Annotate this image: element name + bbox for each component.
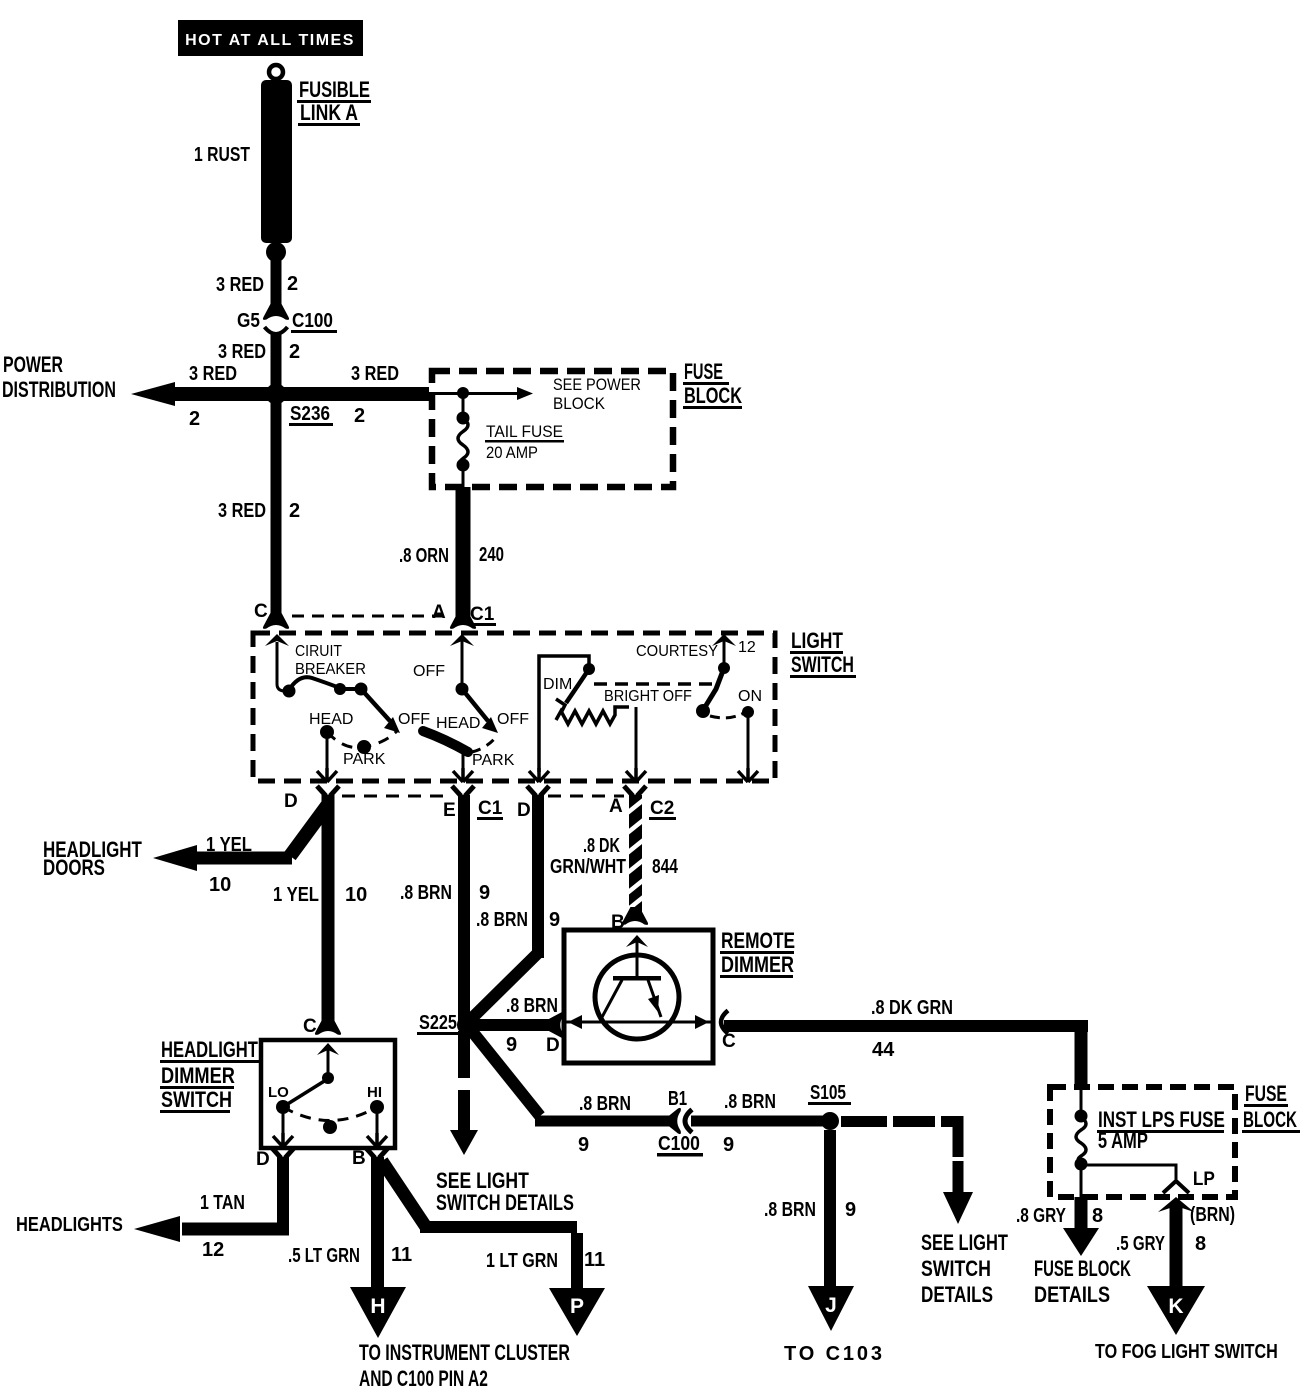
connector P arrow: [549, 1288, 605, 1336]
svg-text:PARK: PARK: [343, 751, 386, 768]
svg-text:9: 9: [578, 1134, 589, 1156]
svg-text:2: 2: [189, 408, 200, 430]
node: HOT AT ALL TIMES power label: [178, 20, 363, 56]
fuse block (upper) dashed enclosure: [432, 371, 673, 487]
svg-text:P: P: [570, 1295, 584, 1318]
splice S236 junction dot: [266, 384, 287, 405]
svg-text:1 LT GRN: 1 LT GRN: [486, 1249, 558, 1271]
svg-text:44: 44: [872, 1039, 895, 1061]
tail fuse element (fusible element squiggle): [457, 412, 470, 425]
svg-text:240: 240: [479, 543, 504, 566]
svg-text:3 RED: 3 RED: [216, 272, 264, 295]
label CIRUIT BREAKER: [295, 642, 366, 678]
label SEE LIGHT SWITCH DETAILS (right): [921, 1231, 1008, 1308]
ganged-switch mechanical link (dashed): [594, 682, 712, 686]
fuse block (lower) dashed enclosure: [1050, 1087, 1235, 1197]
wire: LO contact to pin D: [282, 1107, 285, 1134]
dimmer switch pin C male arrow: [317, 1043, 339, 1055]
dimmer switch wiper: [327, 1050, 330, 1074]
wire: power distribution feed (left arrow): [166, 387, 276, 401]
switch blade: pin A to OFF position: [462, 689, 488, 721]
svg-text:LP: LP: [1193, 1168, 1215, 1189]
svg-text:HI: HI: [367, 1084, 382, 1101]
wire: S225 down to SEE LIGHT SWITCH DETAILS (dashed break): [458, 1031, 470, 1078]
dimmer wiper blade: [566, 672, 587, 703]
label HEADLIGHT DIMMER SWITCH: [160, 1038, 259, 1113]
wire 11: dimmer switch B to instrument cluster (.5 LT GRN): [371, 1157, 384, 1287]
connector J arrow to C103: [808, 1286, 854, 1331]
label HEADLIGHT DOORS: [43, 838, 142, 881]
svg-text:DISTRIBUTION: DISTRIBUTION: [2, 379, 116, 403]
label REMOTE DIMMER: [720, 929, 795, 978]
svg-text:OFF: OFF: [398, 711, 430, 728]
wire: HEAD crescent to pin E: [462, 752, 465, 772]
svg-text:844: 844: [652, 855, 678, 877]
svg-text:11: 11: [584, 1249, 605, 1271]
svg-text:SWITCH: SWITCH: [791, 654, 854, 678]
svg-text:HEAD: HEAD: [436, 715, 480, 732]
label POWER DISTRIBUTION: [2, 354, 116, 403]
svg-text:HEADLIGHT: HEADLIGHT: [161, 1038, 258, 1063]
svg-text:9: 9: [723, 1134, 734, 1156]
svg-text:SEE POWER: SEE POWER: [553, 376, 641, 394]
courtesy switch blade: [705, 668, 724, 707]
wire: S105 dashed branch to SEE LIGHT SWITCH DETAILS (right): [841, 1116, 887, 1127]
wire 9: light switch E down to S225 (.8 BRN): [458, 795, 470, 1025]
svg-text:2: 2: [289, 500, 300, 522]
svg-text:TO C103: TO C103: [784, 1343, 882, 1365]
svg-text:5 AMP: 5 AMP: [1098, 1129, 1148, 1154]
svg-text:B1: B1: [668, 1087, 687, 1110]
label FUSIBLE LINK A: [297, 78, 371, 126]
transistor Q1 (remote dimmer): [566, 942, 711, 1039]
svg-text:C2: C2: [650, 798, 674, 819]
wire 8: fuse block down to fuse block details (.8 GRY): [1075, 1197, 1088, 1229]
svg-text:1 TAN: 1 TAN: [200, 1191, 245, 1213]
wire 10: light switch D down to dimmer switch (1 YEL): [322, 795, 335, 1022]
svg-text:FUSE BLOCK: FUSE BLOCK: [1034, 1256, 1131, 1281]
pin C: terminal chevron (top): [263, 611, 289, 629]
wire 9: light switch D down to S225 (.8 BRN): [532, 795, 544, 958]
svg-text:3 RED: 3 RED: [351, 361, 399, 384]
svg-text:DETAILS: DETAILS: [921, 1283, 993, 1308]
contact HI: [370, 1100, 384, 1114]
connector C100 (B1) inline chevrons: [668, 1108, 692, 1134]
svg-text:1 RUST: 1 RUST: [194, 143, 250, 165]
remote dimmer pin B male arrow: [626, 935, 648, 947]
svg-text:DETAILS: DETAILS: [1034, 1283, 1110, 1307]
junction dot below fusible link: [266, 242, 286, 262]
svg-text:12: 12: [202, 1239, 224, 1261]
svg-text:10: 10: [209, 874, 231, 896]
pin LP terminal chevron: [1163, 1181, 1189, 1193]
svg-text:8: 8: [1092, 1205, 1103, 1227]
svg-text:.8 DK GRN: .8 DK GRN: [871, 996, 953, 1018]
svg-text:HEADLIGHTS: HEADLIGHTS: [16, 1212, 123, 1235]
svg-text:PARK: PARK: [472, 752, 515, 769]
remote dimmer U1 module box: [564, 930, 713, 1063]
wire: S236 to fuse block: [276, 387, 429, 401]
headlight dimmer switch box: [261, 1040, 395, 1148]
pin C terminal chevron at headlight dimmer switch: [315, 1017, 341, 1035]
wire: C100 to S236: [271, 334, 282, 394]
svg-text:3 RED: 3 RED: [218, 498, 266, 521]
wire 9: S105 down to C103 (.8 BRN): [824, 1130, 836, 1287]
svg-text:LO: LO: [268, 1084, 289, 1101]
svg-text:9: 9: [506, 1034, 517, 1056]
svg-text:S105: S105: [810, 1081, 846, 1103]
svg-text:GRN/WHT: GRN/WHT: [550, 855, 626, 877]
svg-text:HOT AT ALL TIMES: HOT AT ALL TIMES: [185, 32, 355, 49]
svg-text:C1: C1: [478, 798, 503, 819]
svg-text:D: D: [256, 1149, 270, 1170]
svg-text:.8 BRN: .8 BRN: [476, 908, 528, 930]
wire: HI contact to pin B: [376, 1107, 379, 1134]
contact HEAD (thick blade crescent): [423, 731, 468, 752]
wire 9: S225 diagonal to C100 (.8 BRN): [467, 1025, 540, 1116]
wire: pin A to headlight feed blade: [461, 641, 464, 684]
svg-text:(BRN): (BRN): [1190, 1203, 1235, 1225]
svg-text:REMOTE: REMOTE: [721, 929, 795, 953]
contact LO: [276, 1100, 290, 1114]
svg-text:3 RED: 3 RED: [189, 361, 237, 384]
svg-text:J: J: [825, 1294, 837, 1317]
svg-text:D: D: [546, 1035, 560, 1056]
pin B terminal chevron (below box): [366, 1148, 388, 1158]
svg-text:LIGHT: LIGHT: [791, 629, 843, 653]
fusible link A body: [261, 80, 292, 243]
svg-text:.8 DK: .8 DK: [583, 834, 620, 857]
svg-text:LINK A: LINK A: [300, 101, 358, 125]
pin D terminal chevron (below box): [272, 1148, 294, 1158]
svg-text:SWITCH DETAILS: SWITCH DETAILS: [436, 1191, 574, 1216]
label FUSE BLOCK (lower): [1242, 1083, 1300, 1133]
contact ON with dashed throw arc: [710, 713, 744, 718]
wire 11: dimmer switch B branch to park lamps (1 LT GRN): [382, 1161, 426, 1227]
svg-text:1 YEL: 1 YEL: [273, 883, 319, 906]
svg-text:.8 GRY: .8 GRY: [1016, 1204, 1066, 1226]
wire: HEAD contact to pin D: [326, 732, 329, 772]
svg-text:COURTESY: COURTESY: [636, 643, 718, 661]
svg-text:12: 12: [738, 639, 756, 656]
label SEE POWER BLOCK: [553, 376, 641, 413]
connector dashed line between pins C and A (connector C1 top): [292, 615, 450, 618]
wire 10: headlight doors feed (left arrow): [186, 852, 292, 865]
svg-text:D: D: [517, 800, 531, 821]
switch blade: circuit breaker to OFF position: [361, 689, 390, 721]
svg-text:A: A: [432, 602, 446, 623]
svg-text:.8 BRN: .8 BRN: [400, 881, 452, 903]
wire: pin 12 to courtesy switch: [723, 641, 726, 663]
svg-text:K: K: [1168, 1295, 1183, 1318]
svg-text:TAIL FUSE: TAIL FUSE: [486, 422, 563, 441]
svg-text:.8 ORN: .8 ORN: [399, 544, 449, 567]
wire 44: remote dimmer pin C to fuse block (.8 DK GRN): [721, 1011, 728, 1034]
connector H arrow to instrument cluster: [350, 1287, 406, 1338]
connector dashed line below switch (C1): [342, 795, 448, 798]
label FUSE BLOCK (upper): [683, 359, 742, 409]
dashed throw arc to PARK (right): [472, 737, 496, 752]
svg-text:DOORS: DOORS: [43, 856, 105, 881]
node A: junction dot at tail fuse top: [457, 387, 469, 399]
svg-text:20 AMP: 20 AMP: [486, 444, 538, 462]
svg-text:11: 11: [391, 1244, 412, 1266]
svg-text:DIM: DIM: [543, 676, 572, 693]
connector K arrow to fog light switch: [1147, 1286, 1205, 1335]
svg-text:S225: S225: [419, 1011, 457, 1033]
svg-text:BRIGHT OFF: BRIGHT OFF: [604, 687, 692, 705]
pin A terminal chevron / connector C2: [624, 786, 646, 796]
svg-text:POWER: POWER: [3, 354, 63, 378]
pin E terminal chevron / connector C1: [452, 786, 474, 796]
wire: S236 down to light switch pin C: [271, 400, 282, 617]
svg-text:FUSIBLE: FUSIBLE: [299, 78, 370, 103]
svg-text:.5 LT GRN: .5 LT GRN: [288, 1244, 360, 1267]
dashed throw arc with center dot: [283, 1107, 377, 1121]
svg-text:9: 9: [479, 882, 490, 904]
contact PARK (left) with dashed throw arc: [327, 731, 397, 748]
contact HEAD (left): [320, 725, 334, 739]
svg-text:2: 2: [287, 273, 298, 295]
connector C100 (G5) splice symbol: [263, 302, 289, 334]
wire 12: dimmer switch D to headlights (1 TAN): [277, 1157, 289, 1229]
svg-text:DIMMER: DIMMER: [161, 1064, 235, 1088]
pin B terminal chevron at remote dimmer: [622, 907, 648, 925]
svg-text:SWITCH: SWITCH: [921, 1257, 991, 1281]
splice S225: [457, 1015, 477, 1035]
svg-text:OFF: OFF: [497, 711, 529, 728]
svg-text:.8 BRN: .8 BRN: [764, 1198, 816, 1220]
svg-text:AND C100 PIN A2: AND C100 PIN A2: [359, 1368, 488, 1392]
svg-text:SWITCH: SWITCH: [161, 1088, 232, 1112]
svg-text:2: 2: [289, 341, 300, 363]
light switch pin A male arrow: [450, 634, 474, 646]
svg-text:TO FOG LIGHT SWITCH: TO FOG LIGHT SWITCH: [1095, 1340, 1278, 1362]
svg-text:.8 BRN: .8 BRN: [506, 994, 558, 1016]
svg-text:C: C: [254, 601, 268, 622]
svg-text:9: 9: [549, 909, 560, 931]
svg-text:ON: ON: [738, 688, 762, 705]
svg-text:G5: G5: [237, 309, 260, 331]
pin D terminal chevron (dimmer feed): [527, 786, 549, 796]
inst lps fuse element: [1080, 1087, 1083, 1113]
svg-text:2: 2: [354, 405, 365, 427]
wire: rheostat to pin A(C2): [635, 707, 638, 772]
svg-text:BLOCK: BLOCK: [684, 384, 742, 409]
connector dashed line below switch (C2): [548, 795, 624, 798]
light switch pin C male arrow: [265, 634, 289, 646]
wire: pin C to circuit breaker: [277, 642, 285, 691]
svg-text:3 RED: 3 RED: [218, 339, 266, 362]
svg-text:S236: S236: [290, 402, 330, 425]
svg-text:C: C: [303, 1016, 317, 1037]
fusible link A (ring terminal): [269, 65, 283, 79]
circuit breaker element: [283, 685, 296, 698]
wire: headlight doors branch (diagonal): [290, 803, 329, 856]
svg-text:CIRUIT: CIRUIT: [295, 642, 342, 660]
wire 844: light switch A to remote dimmer (.8 DK GRN/WHT striped): [626, 795, 646, 912]
label SEE LIGHT SWITCH DETAILS (left): [436, 1169, 574, 1215]
wire 240: fuse block to light switch pin A (.8 ORN): [456, 487, 471, 617]
wire 8: LP to fog light switch (.5 GRY) with up arrow: [1158, 1197, 1194, 1212]
svg-text:.8 BRN: .8 BRN: [724, 1090, 776, 1112]
wire 9: C100 to S105 (.8 BRN): [691, 1116, 830, 1127]
svg-text:TO INSTRUMENT CLUSTER: TO INSTRUMENT CLUSTER: [359, 1342, 570, 1366]
svg-text:E: E: [443, 800, 456, 821]
label LIGHT SWITCH: [790, 629, 856, 678]
pin A: terminal chevron (top): [450, 611, 476, 629]
svg-text:9: 9: [845, 1199, 856, 1221]
svg-text:C: C: [722, 1031, 736, 1052]
svg-text:HEAD: HEAD: [309, 711, 353, 728]
svg-text:DIMMER: DIMMER: [721, 953, 794, 977]
wire: ON contact to switch edge: [747, 712, 750, 772]
wire 9: S225 to remote dimmer pin D (.8 BRN): [470, 1019, 552, 1031]
svg-text:A: A: [609, 796, 623, 817]
label FUSE BLOCK DETAILS: [1034, 1256, 1131, 1307]
light switch dashed enclosure: [253, 633, 775, 781]
svg-text:1 YEL: 1 YEL: [206, 833, 252, 856]
svg-text:C100: C100: [292, 309, 333, 332]
svg-text:BREAKER: BREAKER: [295, 661, 366, 679]
svg-text:C1: C1: [470, 604, 495, 625]
label TAIL FUSE 20 AMP: [485, 422, 564, 462]
courtesy lamp switch pin (12) male arrow: [712, 634, 736, 646]
wire: fusible link to C100: [271, 258, 282, 308]
rheostat resistance element (zigzag): [556, 707, 629, 724]
svg-text:BLOCK: BLOCK: [1243, 1108, 1297, 1132]
pin D terminal chevron (bottom left): [317, 786, 339, 796]
wire: feed inside fuse block to SEE POWER BLOCK: [429, 392, 519, 395]
wire: fuse to LP terminal: [1081, 1165, 1176, 1180]
svg-text:B: B: [352, 1148, 366, 1169]
svg-text:C100: C100: [658, 1132, 700, 1154]
svg-text:OFF: OFF: [413, 663, 445, 680]
svg-text:FUSE: FUSE: [1245, 1083, 1287, 1107]
DIM wiper contact dot: [583, 663, 595, 675]
svg-text:SEE LIGHT: SEE LIGHT: [921, 1231, 1008, 1256]
label INST LPS FUSE 5 AMP: [1097, 1108, 1225, 1154]
svg-text:FUSE: FUSE: [684, 359, 723, 384]
wire: tail fuse to fuse block edge: [462, 464, 465, 490]
wire: junction down to tail fuse: [462, 393, 465, 419]
svg-text:10: 10: [345, 884, 367, 906]
svg-text:H: H: [370, 1295, 385, 1318]
panel dimmer rheostat: feed riser from pin D: [539, 656, 589, 772]
svg-text:8: 8: [1195, 1233, 1206, 1255]
splice S105: [821, 1112, 839, 1130]
svg-text:.8 BRN: .8 BRN: [579, 1092, 631, 1114]
svg-text:D: D: [284, 791, 298, 812]
svg-text:.5 GRY: .5 GRY: [1116, 1232, 1165, 1255]
svg-text:BLOCK: BLOCK: [553, 394, 605, 413]
label TO INSTRUMENT CLUSTER AND C100 PIN A2: [359, 1342, 570, 1392]
